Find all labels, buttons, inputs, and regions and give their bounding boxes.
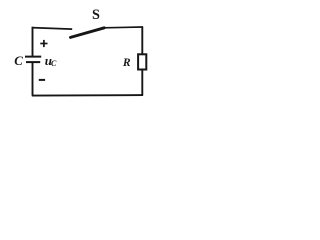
plus sign: [40, 40, 47, 47]
wire top-right segment: [104, 26, 143, 29]
minus sign: [39, 79, 45, 81]
svg-text:C: C: [14, 54, 23, 68]
wire left vertical lower: [32, 62, 34, 96]
resistor R box: [138, 54, 146, 69]
wire right vertical lower: [141, 69, 143, 95]
wire bottom: [32, 94, 143, 97]
wire top-left segment: [32, 28, 72, 30]
capacitor C bottom plate: [26, 61, 40, 63]
switch S blade: [71, 28, 105, 38]
wire right vertical upper: [141, 27, 143, 55]
capacitor C top plate: [25, 56, 41, 58]
svg-text:R: R: [122, 56, 131, 69]
svg-text:C: C: [51, 59, 57, 68]
svg-text:S: S: [92, 7, 100, 23]
wire left vertical upper: [32, 27, 34, 57]
